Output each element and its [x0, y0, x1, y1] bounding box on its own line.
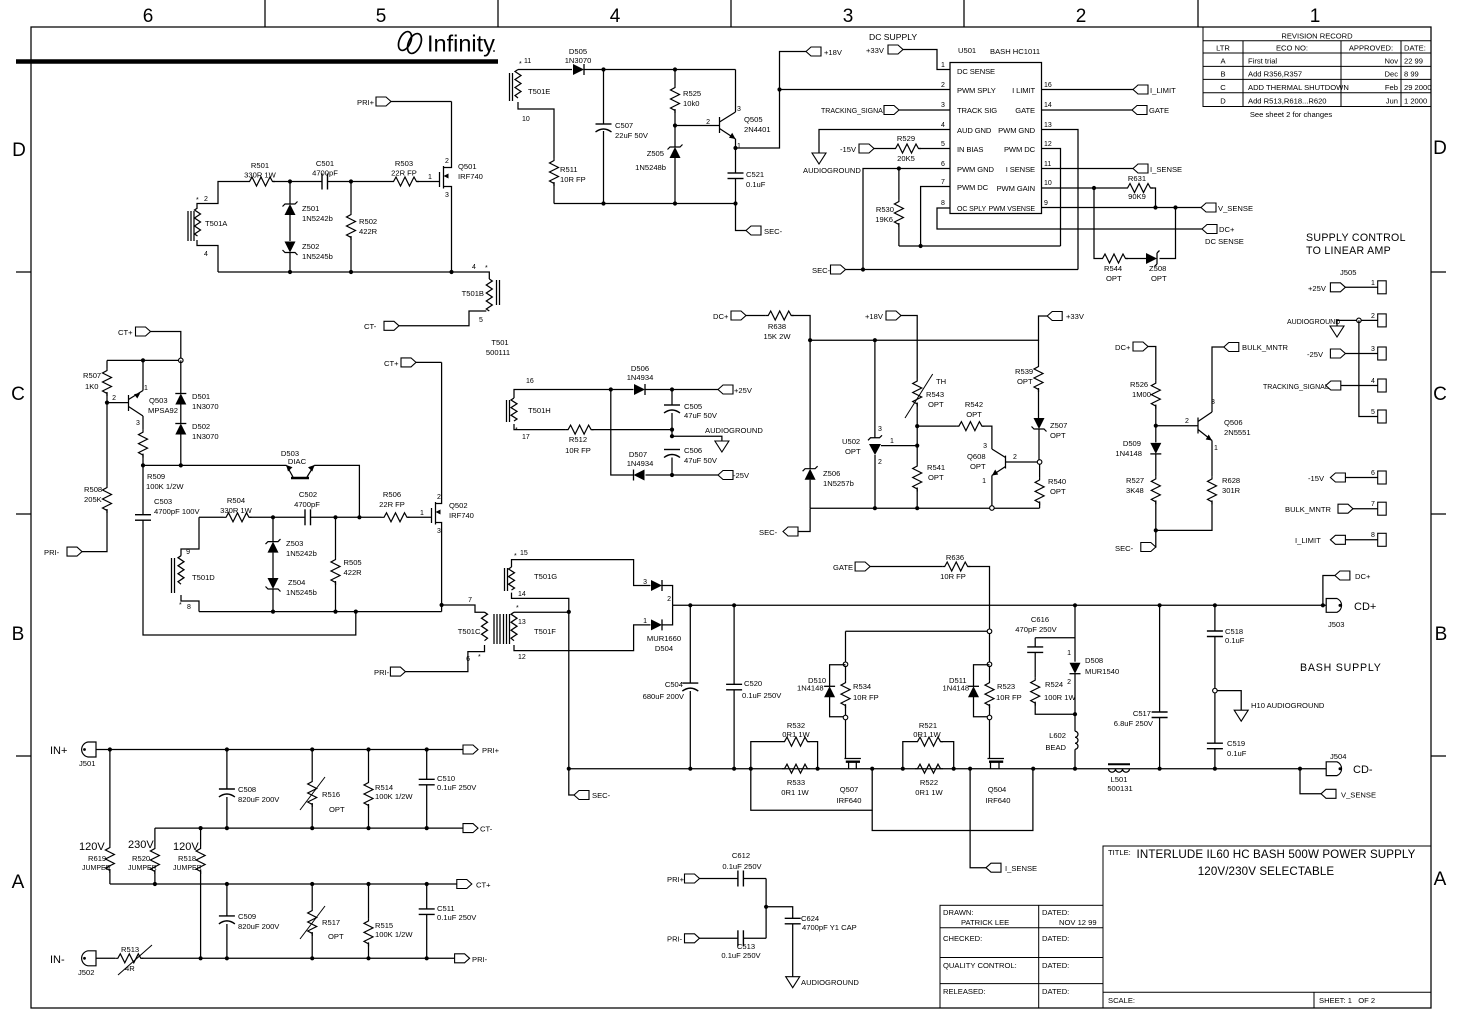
node DC+ flag: [1202, 225, 1217, 234]
svg-text:3: 3: [445, 192, 449, 199]
svg-text:T501G: T501G: [534, 572, 557, 581]
svg-text:422R: 422R: [359, 227, 378, 236]
svg-text:R501: R501: [251, 161, 269, 170]
svg-text:R526: R526: [1130, 380, 1148, 389]
svg-text:120V: 120V: [79, 841, 105, 853]
svg-text:R513: R513: [121, 945, 139, 954]
svg-text:-15V: -15V: [1308, 474, 1325, 483]
svg-text:1N4148: 1N4148: [797, 684, 824, 693]
svg-text:I_SENSE: I_SENSE: [1150, 165, 1182, 174]
svg-text:R530: R530: [876, 205, 894, 214]
svg-text:R543: R543: [926, 390, 944, 399]
wire SEC- drop long: [569, 612, 574, 795]
resistor R521 loop: [903, 742, 954, 769]
svg-text:I SENSE: I SENSE: [1006, 165, 1035, 174]
svg-text:TH: TH: [936, 377, 946, 386]
svg-text:330R 1W: 330R 1W: [244, 171, 276, 180]
wire pin16 I_LIMIT: [1042, 89, 1134, 91]
svg-text:4700pF: 4700pF: [312, 169, 338, 178]
svg-text:2: 2: [706, 119, 710, 126]
svg-text:R539: R539: [1015, 367, 1033, 376]
svg-text:820uF 200V: 820uF 200V: [238, 795, 280, 804]
capacitor C617: [1159, 605, 1161, 712]
svg-text:R542: R542: [965, 400, 983, 409]
svg-text:ADD THERMAL SHUTDOWN: ADD THERMAL SHUTDOWN: [1248, 83, 1349, 92]
svg-text:A: A: [1434, 869, 1447, 890]
svg-text:GATE: GATE: [1015, 106, 1035, 115]
resistor R515: [368, 884, 370, 918]
svg-text:J504: J504: [1330, 752, 1346, 761]
svg-text:3K48: 3K48: [1126, 486, 1144, 495]
wire pin7 PWM DC: [921, 187, 950, 247]
svg-text:PRI+: PRI+: [482, 746, 500, 755]
svg-text:DC SUPPLY: DC SUPPLY: [869, 32, 917, 42]
svg-text:4R: 4R: [125, 964, 135, 973]
svg-text:CD+: CD+: [1354, 601, 1376, 613]
wire IN- rail: [141, 957, 454, 959]
svg-text:ECO NO:: ECO NO:: [1276, 44, 1308, 53]
svg-text:I LIMIT: I LIMIT: [1012, 86, 1035, 95]
svg-text:OC SPLY: OC SPLY: [957, 206, 987, 213]
svg-text:D502: D502: [192, 422, 210, 431]
svg-text:0.1uF 250V: 0.1uF 250V: [721, 951, 761, 960]
svg-text:1M00: 1M00: [1132, 390, 1151, 399]
resistor R526: [1151, 381, 1160, 409]
svg-text:D: D: [1220, 96, 1226, 105]
wire R544 branch: [1094, 188, 1100, 259]
wire IN+ rail: [96, 749, 463, 751]
svg-text:C511: C511: [437, 904, 455, 913]
wire Y-cap link: [765, 879, 767, 939]
svg-text:SEC-: SEC-: [759, 528, 778, 537]
svg-text:L501: L501: [1111, 775, 1128, 784]
svg-text:DATED:: DATED:: [1042, 908, 1069, 917]
node DC+ flag: [1323, 576, 1335, 606]
resistor R539: [1038, 340, 1040, 364]
resistor R631: [1125, 184, 1153, 193]
wire pin7 link: [440, 603, 444, 607]
svg-text:1N3070: 1N3070: [565, 56, 592, 65]
svg-text:10R FP: 10R FP: [940, 572, 966, 581]
svg-text:R619: R619: [88, 854, 106, 863]
wire pin12 to D504 lower: [514, 625, 651, 651]
svg-text:See sheet 2 for changes: See sheet 2 for changes: [1250, 110, 1333, 119]
svg-text:16: 16: [526, 378, 534, 385]
svg-text:0R1 1W: 0R1 1W: [782, 730, 810, 739]
svg-text:R509: R509: [147, 472, 165, 481]
svg-text:+25V: +25V: [734, 386, 753, 395]
svg-text:T501F: T501F: [534, 627, 556, 636]
diode D504: [651, 619, 662, 630]
svg-text:CD-: CD-: [1353, 764, 1373, 776]
wire SEC- drop: [736, 204, 747, 231]
svg-text:R534: R534: [853, 682, 871, 691]
svg-text:4: 4: [610, 6, 621, 27]
svg-text:C507: C507: [615, 121, 633, 130]
svg-text:TRACKING_SIGNAL: TRACKING_SIGNAL: [821, 108, 887, 115]
svg-text:U501: U501: [958, 46, 976, 55]
svg-text:1: 1: [428, 174, 432, 181]
svg-text:Z504: Z504: [288, 578, 305, 587]
svg-text:D501: D501: [192, 392, 210, 401]
wire bottom rail: [199, 611, 442, 613]
svg-text:29 2000: 29 2000: [1404, 83, 1431, 92]
svg-text:0R1 1W: 0R1 1W: [915, 788, 943, 797]
transistor Q507: [837, 720, 862, 805]
svg-text:12: 12: [1044, 141, 1052, 148]
svg-text:1 2000: 1 2000: [1404, 96, 1427, 105]
svg-text:R541: R541: [927, 463, 945, 472]
svg-text:PWM VSENSE: PWM VSENSE: [989, 206, 1036, 213]
svg-text:TITLE:: TITLE:: [1108, 848, 1131, 857]
svg-text:3: 3: [878, 426, 882, 433]
resistor R638: [766, 311, 794, 320]
svg-text:-25V: -25V: [1307, 350, 1324, 359]
svg-text:6: 6: [941, 161, 945, 168]
resistor R532 loop: [751, 742, 818, 769]
wire common drop pins2-5: [1359, 320, 1378, 416]
capacitor C505: [671, 390, 673, 406]
zener Z505: [668, 145, 683, 159]
svg-text:Q505: Q505: [744, 115, 763, 124]
thick header bar: [16, 59, 498, 64]
svg-text:100K 1/2W: 100K 1/2W: [375, 930, 413, 939]
zener Z501: [289, 182, 291, 205]
svg-text:8: 8: [1371, 532, 1375, 539]
svg-text:6: 6: [1371, 470, 1375, 477]
svg-text:OPT: OPT: [1050, 487, 1066, 496]
svg-text:22 99: 22 99: [1404, 57, 1423, 66]
svg-text:15: 15: [520, 550, 528, 557]
svg-text:C503: C503: [154, 497, 172, 506]
svg-text:*: *: [515, 427, 518, 434]
resistor R525: [674, 70, 676, 86]
svg-text:Feb: Feb: [1385, 83, 1398, 92]
svg-text:BASH SUPPLY: BASH SUPPLY: [1300, 662, 1382, 674]
svg-text:OPT: OPT: [928, 473, 944, 482]
wire C502 row: [199, 516, 432, 518]
svg-text:3: 3: [843, 6, 854, 27]
svg-text:R515: R515: [375, 921, 393, 930]
wire pin6: [863, 169, 950, 270]
svg-text:14: 14: [1044, 102, 1052, 109]
svg-text:+33V: +33V: [1066, 312, 1085, 321]
svg-text:DC+: DC+: [1115, 343, 1131, 352]
capacitor C511: [426, 884, 428, 909]
svg-text:Q506: Q506: [1224, 418, 1243, 427]
svg-text:OPT: OPT: [329, 805, 345, 814]
svg-text:4700pF Y1 CAP: 4700pF Y1 CAP: [802, 923, 857, 932]
svg-text:4: 4: [204, 251, 208, 258]
svg-text:5: 5: [1371, 409, 1375, 416]
svg-text:JUMPER: JUMPER: [173, 865, 202, 872]
svg-text:INTERLUDE IL60 HC BASH 500W PO: INTERLUDE IL60 HC BASH 500W POWER SUPPLY: [1137, 848, 1416, 861]
wire: [273, 181, 322, 183]
svg-text:Z508: Z508: [1149, 264, 1166, 273]
svg-text:0.1uF: 0.1uF: [1225, 636, 1245, 645]
svg-text:APPROVED:: APPROVED:: [1349, 44, 1393, 53]
wire pin2 rail: [780, 89, 951, 91]
wire bottom rail: [218, 272, 489, 279]
svg-text:1N5257b: 1N5257b: [823, 479, 854, 488]
svg-text:1: 1: [420, 510, 424, 517]
svg-text:D: D: [1433, 138, 1447, 159]
svg-text:R532: R532: [787, 721, 805, 730]
svg-text:Q608: Q608: [967, 452, 986, 461]
svg-text:*: *: [485, 265, 488, 272]
wire pin16: [514, 390, 634, 399]
resistor R508: [103, 485, 112, 513]
svg-text:1: 1: [1310, 6, 1321, 27]
svg-text:B: B: [1435, 624, 1448, 645]
wire main bottom rail: [569, 768, 1326, 770]
svg-text:OPT: OPT: [1106, 274, 1122, 283]
resistor R511: [518, 102, 554, 158]
svg-text:IRF740: IRF740: [458, 172, 483, 181]
svg-text:J505: J505: [1340, 268, 1356, 277]
svg-text:PRI-: PRI-: [44, 548, 60, 557]
svg-text:IRF640: IRF640: [837, 796, 862, 805]
resistor R513: [96, 957, 115, 959]
svg-text:*: *: [516, 605, 519, 612]
zener Z503: [272, 517, 274, 541]
resistor R628: [1208, 476, 1217, 504]
svg-text:NOV 12 99: NOV 12 99: [1059, 918, 1097, 927]
svg-text:DC+: DC+: [1219, 225, 1235, 234]
svg-text:First trial: First trial: [1248, 57, 1277, 66]
svg-text:R533: R533: [787, 778, 805, 787]
svg-text:PWM GAIN: PWM GAIN: [997, 184, 1035, 193]
ground audioground: [786, 977, 800, 988]
svg-text:PATRICK LEE: PATRICK LEE: [961, 918, 1009, 927]
svg-text:DC SENSE: DC SENSE: [1205, 237, 1244, 246]
svg-text:C509: C509: [238, 912, 256, 921]
svg-text:CHECKED:: CHECKED:: [943, 934, 982, 943]
svg-text:1N4148: 1N4148: [1115, 449, 1142, 458]
resistor R522 inline: [915, 764, 943, 773]
transistor Q503: [107, 360, 178, 429]
wire T501D pin8: [181, 595, 199, 612]
svg-text:Z505: Z505: [647, 149, 664, 158]
svg-text:MPSA92: MPSA92: [148, 406, 178, 415]
svg-text:QUALITY CONTROL:: QUALITY CONTROL:: [943, 961, 1017, 970]
svg-text:5: 5: [941, 141, 945, 148]
svg-text:6: 6: [143, 6, 154, 27]
svg-text:T501H: T501H: [528, 406, 551, 415]
svg-text:R511: R511: [560, 165, 578, 174]
svg-text:2N4401: 2N4401: [744, 125, 771, 134]
svg-text:100R 1W: 100R 1W: [1044, 693, 1076, 702]
svg-text:A: A: [12, 872, 25, 893]
svg-text:Add R513,R618...R620: Add R513,R618...R620: [1248, 96, 1327, 105]
wire D507 row: [611, 390, 634, 476]
svg-text:Dec: Dec: [1384, 70, 1398, 79]
resistor R540: [1039, 464, 1041, 477]
svg-text:17: 17: [522, 434, 530, 441]
svg-text:1: 1: [643, 618, 647, 625]
svg-text:3: 3: [1211, 399, 1215, 406]
svg-text:R512: R512: [569, 435, 587, 444]
svg-text:C: C: [1220, 83, 1226, 92]
svg-text:3: 3: [941, 102, 945, 109]
svg-text:2: 2: [445, 158, 449, 165]
svg-text:DATED:: DATED:: [1042, 987, 1069, 996]
svg-text:PRI+: PRI+: [667, 875, 685, 884]
wire pin8 OC SPLY to DC+: [937, 208, 1202, 229]
diode D509: [1150, 443, 1161, 454]
wire pin13 to SEC- rail: [1042, 130, 1079, 270]
resistor R509: [139, 430, 148, 458]
svg-text:OPT: OPT: [845, 447, 861, 456]
svg-text:R631: R631: [1128, 174, 1146, 183]
svg-text:330R 1W: 330R 1W: [220, 506, 252, 515]
svg-text:R628: R628: [1222, 476, 1240, 485]
svg-text:DATE:: DATE:: [1404, 44, 1426, 53]
capacitor C508: [226, 750, 228, 790]
svg-text:4700pF: 4700pF: [294, 500, 320, 509]
svg-text:1N5242b: 1N5242b: [286, 549, 317, 558]
node -25V flag: [718, 471, 733, 480]
wire pin9 V_SENSE: [1042, 207, 1202, 209]
wire H10 audioground branch: [1217, 691, 1241, 711]
svg-text:0.1uF: 0.1uF: [746, 180, 766, 189]
svg-text:T501C: T501C: [458, 627, 481, 636]
wire pin15 to D503 top diode: [512, 560, 651, 586]
svg-text:2: 2: [1076, 6, 1087, 27]
svg-text:90K9: 90K9: [1128, 192, 1146, 201]
wire SEC- rail: [846, 269, 1079, 271]
svg-text:C612: C612: [732, 851, 750, 860]
diode D507: [634, 470, 645, 481]
svg-text:SEC-: SEC-: [592, 791, 611, 800]
svg-text:16: 16: [1044, 82, 1052, 89]
svg-text:PRI-: PRI-: [374, 668, 390, 677]
top zone ticks: [16, 0, 1446, 756]
svg-text:SEC-: SEC-: [1115, 544, 1134, 553]
svg-text:Z503: Z503: [286, 539, 303, 548]
zener Z507: [1032, 418, 1047, 432]
diode D506: [634, 384, 645, 395]
svg-text:2: 2: [1067, 679, 1071, 686]
svg-text:Q507: Q507: [840, 785, 859, 794]
wire source sense loop 2: [872, 769, 1033, 831]
svg-text:1: 1: [1214, 445, 1218, 452]
svg-text:9: 9: [186, 549, 190, 556]
svg-text:10k0: 10k0: [683, 99, 699, 108]
svg-text:DC+: DC+: [1355, 572, 1371, 581]
wire pin10 PWM GAIN: [1042, 187, 1126, 189]
wire main top rail CD+: [673, 604, 1327, 606]
svg-text:2: 2: [204, 196, 208, 203]
svg-text:R520: R520: [132, 854, 150, 863]
svg-text:C505: C505: [684, 402, 702, 411]
svg-text:6.8uF 250V: 6.8uF 250V: [1114, 719, 1154, 728]
diode D501: [180, 360, 182, 393]
svg-text:J503: J503: [1328, 620, 1344, 629]
node SEC- flag: [746, 226, 761, 235]
node CT- flag: [463, 824, 478, 833]
svg-text:R502: R502: [359, 217, 377, 226]
svg-text:22uF 50V: 22uF 50V: [615, 131, 649, 140]
node +25V flag: [718, 385, 733, 394]
svg-text:SEC-: SEC-: [812, 266, 831, 275]
svg-text:IRF640: IRF640: [986, 796, 1011, 805]
svg-text:4700pF 100V: 4700pF 100V: [154, 507, 201, 516]
zener Z508: [1146, 251, 1160, 267]
resistor R503: [391, 177, 419, 186]
svg-text:L602: L602: [1049, 731, 1066, 740]
svg-text:D504: D504: [655, 644, 673, 653]
svg-text:Jun: Jun: [1386, 96, 1398, 105]
diode D511 / resistor R523 pair: [943, 665, 1022, 717]
svg-text:1: 1: [1067, 650, 1071, 657]
resistor R507: [106, 360, 108, 368]
svg-text:R544: R544: [1104, 264, 1122, 273]
svg-text:OPT: OPT: [328, 932, 344, 941]
resistor R502: [350, 182, 352, 213]
diode D502: [175, 424, 186, 435]
svg-text:PRI-: PRI-: [472, 955, 488, 964]
svg-text:-15V: -15V: [840, 145, 857, 154]
svg-text:SCALE:: SCALE:: [1108, 996, 1135, 1005]
svg-text:C519: C519: [1227, 739, 1245, 748]
svg-text:DC SENSE: DC SENSE: [957, 67, 995, 76]
zener Z506: [809, 340, 811, 469]
transformer T501B: [462, 279, 500, 324]
svg-text:CT-: CT-: [480, 825, 493, 834]
wire pin14 to pin13: [512, 593, 569, 612]
svg-text:2: 2: [878, 459, 882, 466]
svg-text:T501B: T501B: [462, 289, 484, 298]
svg-text:PWM GND: PWM GND: [998, 126, 1035, 135]
resistor R527: [1151, 476, 1160, 504]
svg-text:C518: C518: [1225, 627, 1243, 636]
wire R530 bottom row: [899, 245, 1061, 247]
svg-text:IN BIAS: IN BIAS: [957, 145, 983, 154]
svg-text:B: B: [1220, 70, 1225, 79]
svg-text:R516: R516: [322, 790, 340, 799]
svg-text:20K5: 20K5: [897, 154, 915, 163]
svg-text:C513: C513: [737, 942, 755, 951]
svg-text:120V: 120V: [173, 841, 199, 853]
svg-text:I_LIMIT: I_LIMIT: [1295, 536, 1321, 545]
svg-text:OPT: OPT: [970, 462, 986, 471]
svg-text:4: 4: [1371, 378, 1375, 385]
svg-text:10R FP: 10R FP: [560, 175, 586, 184]
svg-text:C520: C520: [744, 679, 762, 688]
svg-text:OPT: OPT: [966, 410, 982, 419]
wire top link: [107, 359, 181, 361]
svg-text:7: 7: [1371, 501, 1375, 508]
svg-text:CT+: CT+: [476, 881, 491, 890]
svg-text:Z507: Z507: [1050, 421, 1067, 430]
node PRI+ flag: [357, 97, 452, 107]
svg-text:22R FP: 22R FP: [391, 169, 417, 178]
inductor L602 BEAD: [1074, 714, 1076, 731]
node SEC- flag: [783, 527, 798, 536]
transistor Q504: [986, 720, 1011, 805]
svg-text:12: 12: [518, 654, 526, 661]
svg-text:LTR: LTR: [1216, 44, 1230, 53]
wire base: [675, 125, 720, 127]
op-amp U501 box: [950, 63, 1042, 214]
svg-text:PWM GND: PWM GND: [957, 165, 994, 174]
wire T501A pin2 to R501: [197, 182, 247, 209]
svg-text:DATED:: DATED:: [1042, 961, 1069, 970]
capacitor C503: [142, 465, 144, 514]
resistor R512: [514, 424, 566, 430]
svg-text:DRAWN:: DRAWN:: [943, 908, 974, 917]
